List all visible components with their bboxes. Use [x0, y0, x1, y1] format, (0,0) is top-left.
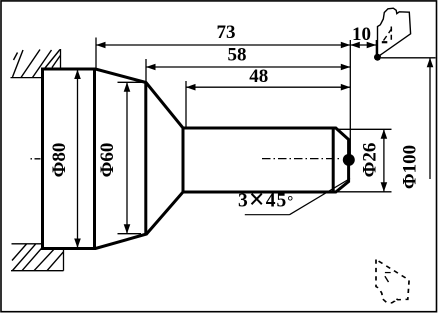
chamfer leader	[290, 179, 351, 215]
extension line right face (shared by 73/58/48)	[349, 40, 351, 157]
transition line (shallow cone / steep cone, phi60)	[144, 83, 147, 235]
svg-text:Φ80: Φ80	[49, 143, 70, 178]
svg-text:73: 73	[217, 22, 236, 43]
chamfer edge circle line	[332, 128, 335, 193]
svg-text:58: 58	[228, 45, 247, 66]
workpiece outline	[43, 69, 349, 249]
centerline right segment	[262, 158, 342, 160]
transition line (phi80 cylinder / cone)	[93, 69, 96, 250]
transition line (steep cone / phi26 cylinder)	[182, 128, 185, 193]
dimension line 73	[96, 44, 350, 46]
tool phantom position (bottom right, dashed)	[376, 259, 409, 302]
tool phantom hatch dashes	[385, 273, 391, 283]
extension line phi60 top	[118, 81, 147, 83]
svg-text:3×45°: 3×45°	[238, 185, 294, 216]
extension line left of dim 48	[185, 81, 187, 128]
dimension line phi80	[77, 70, 79, 249]
dimension line 58	[146, 66, 350, 68]
tool hatch dashes	[382, 27, 393, 43]
dimension line phi100 (half)	[429, 58, 431, 179]
tool tip dot	[374, 54, 381, 61]
centerline	[31, 158, 45, 160]
svg-text:Φ100: Φ100	[400, 145, 421, 189]
extension line phi26 bottom	[336, 191, 392, 193]
extension line left of dim 58	[145, 59, 147, 81]
extension line left of dim 73	[95, 38, 97, 69]
dimension line phi26	[383, 129, 385, 192]
extension line right of dim 10 (tool tip)	[376, 40, 378, 55]
bottom chuck jaw bottom face	[11, 270, 64, 272]
top chuck jaw right face	[60, 49, 62, 69]
bottom chuck jaw right face	[63, 249, 65, 271]
svg-text:Φ26: Φ26	[360, 143, 381, 178]
dimension line phi60	[126, 82, 128, 233]
top chuck jaw bottom face	[11, 77, 42, 79]
dimension line 48	[186, 86, 350, 88]
extension line phi100 top	[381, 57, 436, 59]
tool tip dot on part face	[343, 154, 355, 166]
chamfer leader underline	[245, 214, 290, 216]
dimension line 10	[350, 44, 376, 46]
extension line phi26 top	[336, 128, 392, 130]
bottom jaw hatch	[12, 244, 63, 271]
extension line phi60 bottom	[118, 233, 142, 235]
turning tool (top right)	[378, 8, 411, 57]
svg-text:10: 10	[352, 24, 371, 45]
top jaw hatch	[13, 50, 61, 78]
bottom chuck jaw top face	[12, 243, 42, 245]
svg-text:Φ60: Φ60	[97, 143, 118, 178]
svg-text:48: 48	[249, 66, 268, 87]
